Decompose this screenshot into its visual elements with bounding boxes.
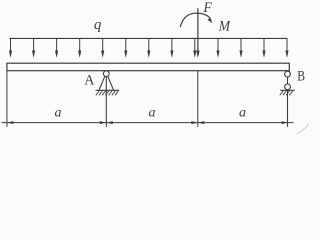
load arrow 7: [147, 38, 150, 58]
load arrow 1: [9, 38, 12, 58]
svg-text:q: q: [94, 17, 102, 33]
load arrow 12: [262, 38, 265, 58]
hatching A: [96, 90, 119, 95]
load arrow 6: [124, 38, 127, 58]
roller support B: [280, 71, 295, 127]
svg-text:A: A: [84, 73, 94, 89]
load arrow 9: [193, 38, 196, 58]
distributed load arrows: [9, 38, 289, 58]
page curl artifact: [297, 124, 310, 135]
svg-text:B: B: [297, 69, 305, 85]
dimension line: [2, 121, 294, 124]
svg-text:M: M: [218, 19, 231, 35]
svg-text:a: a: [149, 106, 156, 121]
pin support A: [96, 71, 119, 127]
beam: [7, 63, 289, 70]
dimension extension line left end: [6, 71, 8, 127]
distributed load line q: [9, 37, 287, 39]
load arrow 11: [239, 38, 242, 58]
load arrow 2: [32, 38, 35, 58]
load arrow 8: [170, 38, 173, 58]
dim arrow at left end: [7, 121, 13, 124]
load arrow 5: [101, 38, 104, 58]
dim arrows at F: [191, 121, 198, 124]
dimension extension line under F: [197, 71, 199, 127]
dim arrows at A: [100, 121, 107, 124]
svg-text:a: a: [239, 106, 246, 121]
load arrow 4: [78, 38, 81, 58]
dim arrow at right end: [282, 121, 289, 124]
force F arrow: [196, 8, 199, 58]
hatching B: [280, 90, 293, 95]
moment M arc: [180, 13, 212, 27]
load arrow 13: [285, 38, 288, 58]
svg-text:a: a: [55, 106, 62, 121]
load arrow 3: [55, 38, 58, 58]
load arrow 10: [216, 38, 219, 58]
